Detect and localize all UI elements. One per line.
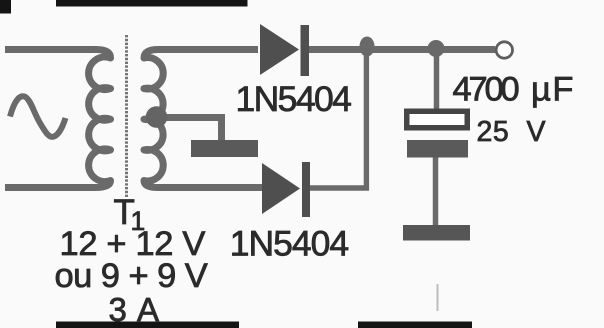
svg-text:1N5404: 1N5404 — [230, 224, 349, 264]
svg-text:4700: 4700 — [453, 71, 519, 109]
svg-text:ou 9 + 9 V: ou 9 + 9 V — [55, 257, 208, 295]
svg-text:25: 25 — [477, 116, 510, 148]
svg-text:3 A: 3 A — [109, 291, 161, 328]
svg-text:V: V — [527, 116, 546, 148]
svg-text:µF: µF — [531, 71, 575, 109]
svg-text:1N5404: 1N5404 — [236, 79, 352, 119]
